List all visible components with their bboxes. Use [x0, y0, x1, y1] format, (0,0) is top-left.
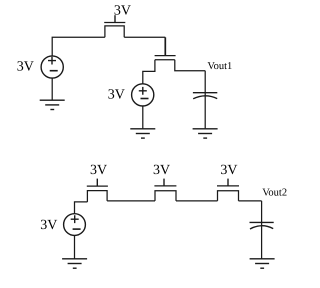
wire M3 to M4 — [107, 200, 155, 202]
wire M1 drain to M2 gate — [124, 36, 165, 38]
ground (under C2) — [250, 259, 275, 268]
wire V1 top to M1 source — [52, 37, 105, 56]
ground (under V3) — [62, 235, 87, 268]
svg-text:Vout1: Vout1 — [207, 61, 232, 72]
svg-text:3V: 3V — [220, 163, 237, 178]
wire M5 to capacitor C2 — [239, 200, 262, 202]
voltage source V2 — [132, 84, 154, 106]
ground (under V1) — [40, 78, 65, 110]
transistor M4 — [154, 179, 176, 201]
wire M4 to M5 — [176, 200, 218, 202]
transistor M2 — [155, 56, 176, 60]
transistor M3 — [87, 179, 108, 202]
wire M2 left to V2 — [143, 60, 155, 84]
svg-text:3V: 3V — [90, 163, 107, 178]
capacitor C1 — [193, 71, 217, 129]
svg-text:Vout2: Vout2 — [262, 187, 287, 198]
transistor M1 — [104, 15, 125, 37]
wire M2 right to capacitor C1 — [175, 60, 205, 71]
wire V3 top to M3 source — [75, 202, 88, 214]
svg-text:3V: 3V — [108, 88, 125, 103]
svg-text:3V: 3V — [153, 163, 170, 178]
ground (under V2) — [130, 106, 155, 138]
voltage source V1 — [41, 56, 63, 78]
ground (under C1) — [193, 129, 218, 138]
transistor M5 — [217, 179, 239, 201]
capacitor C2 — [250, 201, 274, 259]
svg-text:3V: 3V — [40, 218, 57, 233]
voltage source V3 — [64, 214, 86, 236]
svg-text:3V: 3V — [114, 4, 131, 19]
svg-text:3V: 3V — [17, 59, 34, 74]
